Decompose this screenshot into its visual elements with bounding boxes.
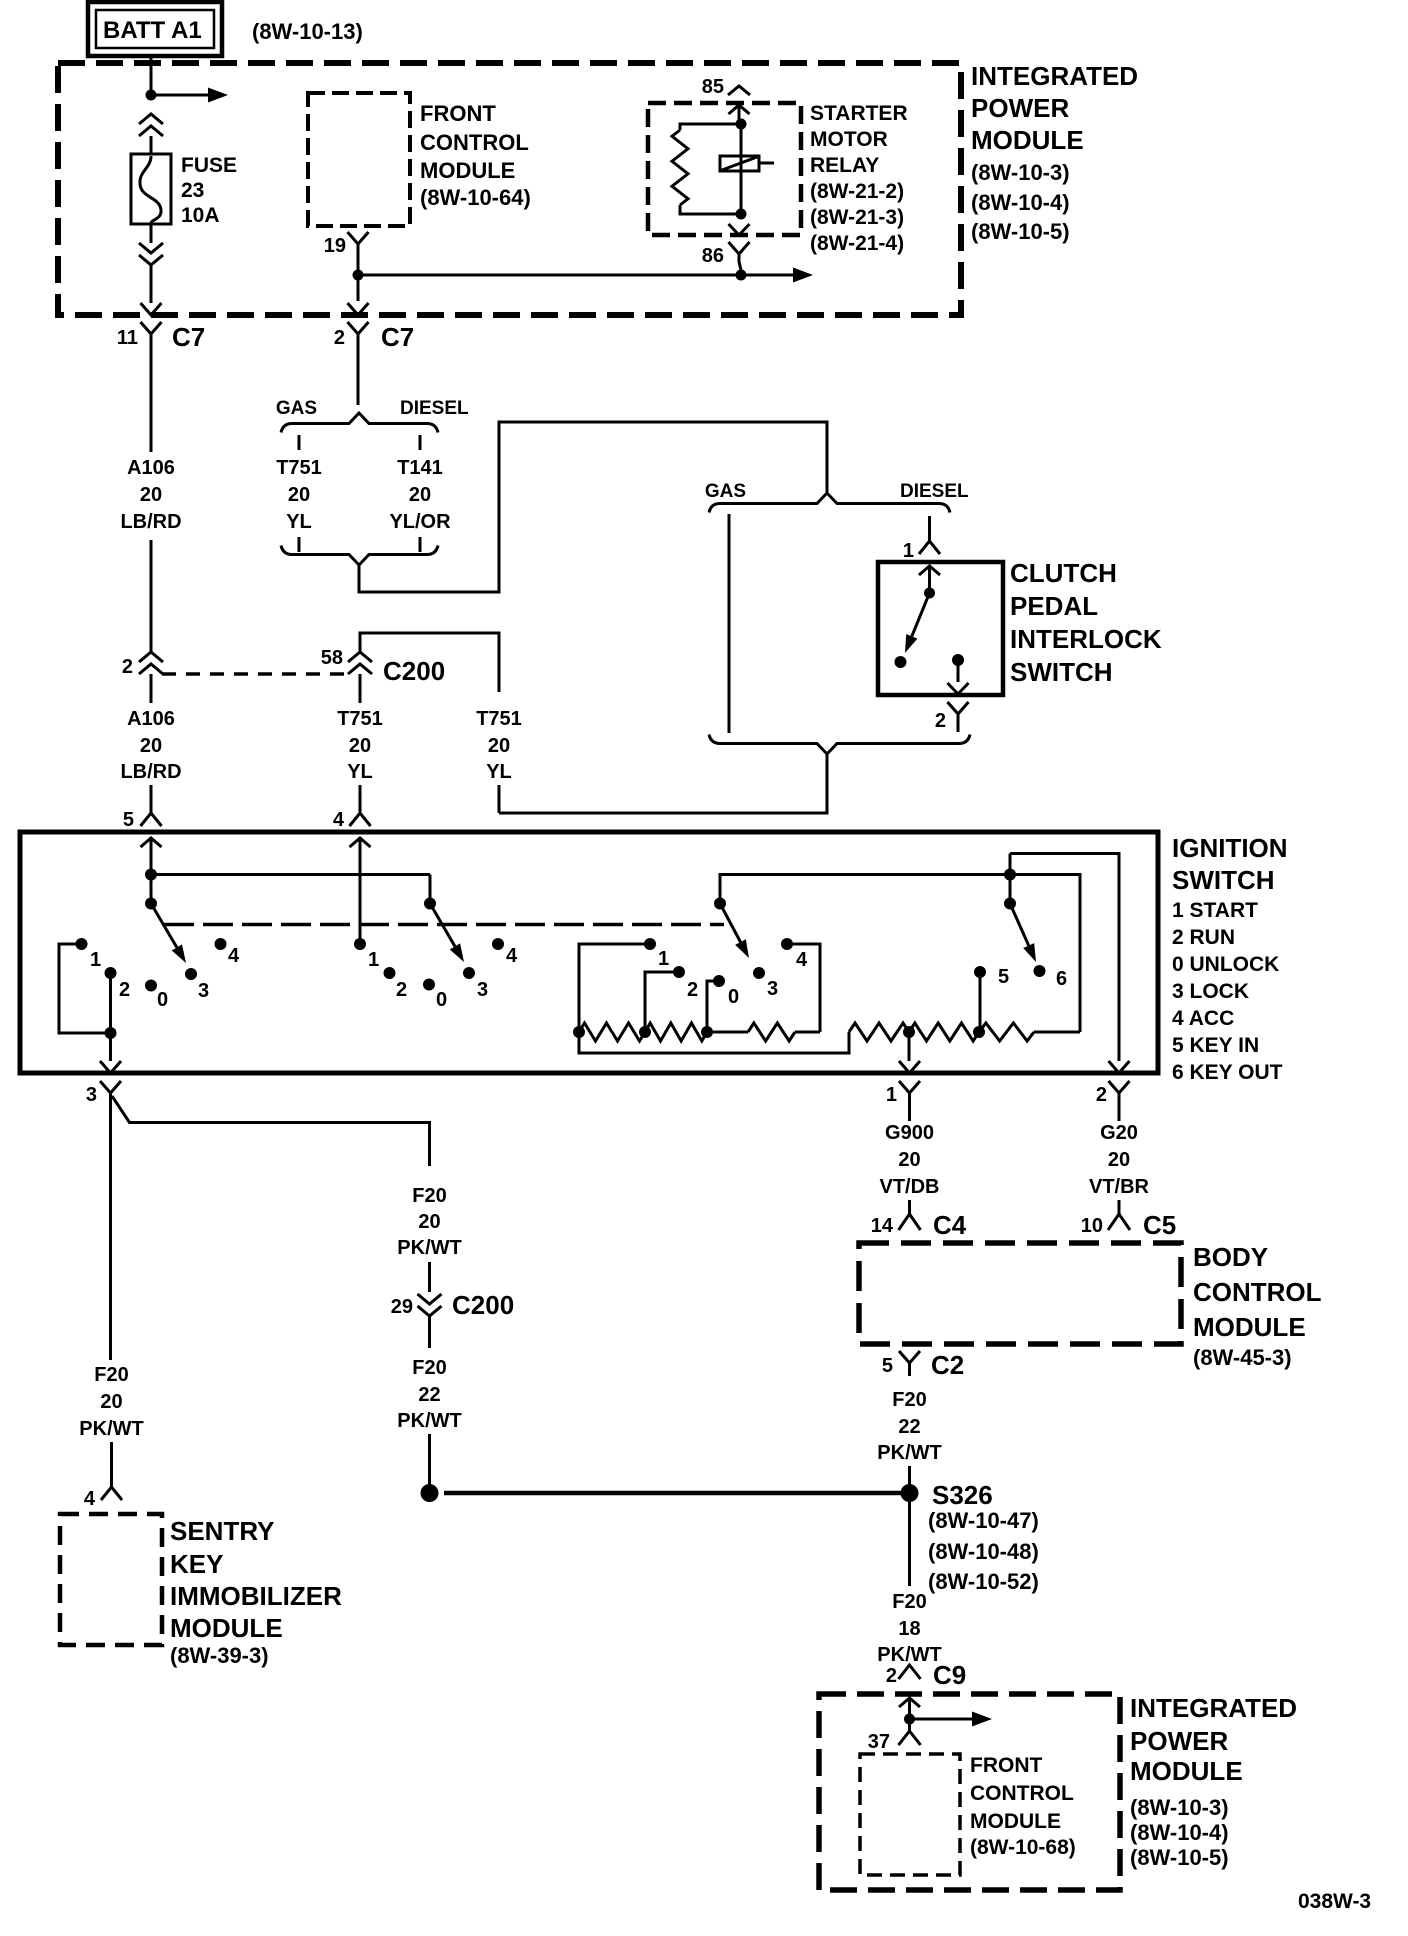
contact B1 [354,938,379,971]
svg-text:A106: A106 [127,457,175,479]
svg-text:CONTROL: CONTROL [970,1782,1074,1805]
switch arm C [720,904,749,959]
svg-text:C7: C7 [172,322,205,352]
node relay coil bottom [736,209,747,220]
svg-text:C9: C9 [933,1660,966,1690]
svg-text:10: 10 [1081,1215,1103,1237]
svg-text:MODULE: MODULE [170,1613,283,1643]
svg-text:YL: YL [347,761,373,783]
svg-text:INTEGRATED: INTEGRATED [971,61,1138,91]
label A106 wire (upper) [120,457,181,533]
clutch contact left [895,656,907,668]
contact A4 [215,938,241,967]
FCM title text [420,101,531,210]
contact D6 [1034,965,1068,990]
svg-text:20: 20 [288,484,310,506]
svg-text:RELAY: RELAY [810,154,879,177]
dashed stub T751 lower [298,537,301,552]
node relay output junction [736,270,747,281]
connector C4 label [933,1210,967,1240]
svg-text:DIESEL: DIESEL [900,481,969,502]
wire G20 upper [1118,1111,1121,1121]
svg-text:LB/RD: LB/RD [120,511,181,533]
svg-text:IGNITION: IGNITION [1172,833,1288,863]
svg-text:1: 1 [658,948,669,970]
connector C7 pin 2 exit [348,303,369,348]
node pivot D [1004,854,1016,910]
label T751 x499 (return) [476,708,522,783]
svg-text:T141: T141 [397,457,443,479]
svg-text:MODULE: MODULE [1130,1756,1243,1786]
switch arm A [151,904,186,964]
svg-text:PK/WT: PK/WT [397,1410,461,1432]
pin 2 label ignition [1096,1084,1107,1106]
svg-text:20: 20 [409,484,431,506]
clutch switch title [1010,558,1162,687]
reference label (8W-10-13) [252,19,363,44]
clutch pin 2 exit [948,683,969,694]
node ladder out1 [903,1026,915,1038]
svg-text:MODULE: MODULE [1193,1312,1306,1342]
svg-text:22: 22 [418,1384,440,1406]
svg-text:5 KEY IN: 5 KEY IN [1172,1034,1259,1057]
svg-text:6 KEY OUT: 6 KEY OUT [1172,1061,1283,1084]
svg-text:INTEGRATED: INTEGRATED [1130,1693,1297,1723]
svg-text:(8W-21-3): (8W-21-3) [810,206,904,229]
figure number 038W-3 [1298,1890,1371,1913]
svg-text:20: 20 [140,484,162,506]
svg-text:PK/WT: PK/WT [397,1237,461,1259]
node ladder mid1 [639,1026,651,1038]
wire branch pin3 to C200-29 [112,1096,430,1166]
switch arm D [1010,904,1036,963]
svg-text:0: 0 [157,989,168,1011]
svg-text:PK/WT: PK/WT [877,1442,941,1464]
dashed stub T751 [298,435,301,450]
svg-text:F20: F20 [412,1357,446,1379]
starter motor relay box (dashed) [648,103,801,235]
wire T751 return lower [498,785,501,813]
connector C200 pin 58 chevrons [348,652,372,703]
svg-text:5: 5 [998,966,1009,988]
BCM pin 14 fork [899,1214,921,1230]
svg-text:DIESEL: DIESEL [400,398,469,419]
splice S326 label [932,1480,993,1510]
svg-text:(8W-10-5): (8W-10-5) [971,219,1070,244]
dashed stub T141 lower [419,537,422,552]
svg-text:2: 2 [334,327,345,349]
svg-text:KEY: KEY [170,1549,223,1579]
contact B0 [423,979,447,1012]
svg-text:GAS: GAS [705,481,746,502]
wire clutch loop return to C200 pin 58 [360,633,499,692]
svg-text:2: 2 [1096,1084,1107,1106]
pin 1 label [886,1084,897,1106]
pin 37 label [868,1731,890,1753]
connector C9 pin 2 fork [899,1665,921,1679]
svg-text:F20: F20 [94,1364,128,1386]
node FCM output junction [353,270,364,281]
wire gas bypass [728,514,731,733]
wire contact C1 left [579,944,650,1032]
resistor ladder R3 [748,1023,820,1041]
label DIESEL (split 1) [400,398,469,419]
contact D5 [974,966,1009,1032]
svg-text:C7: C7 [381,322,414,352]
svg-text:C5: C5 [1143,1210,1176,1240]
wire A106 upper [150,348,153,452]
node IPM2 junction [904,1714,915,1725]
svg-text:1: 1 [886,1084,897,1106]
svg-text:MODULE: MODULE [420,158,515,183]
label F20 22 PK/WT (branch) [397,1357,461,1432]
wire A106 middle [150,540,153,654]
pin 5 label C2 [882,1355,893,1377]
wire G20 lower [1118,1200,1121,1214]
svg-text:11: 11 [117,327,138,349]
contact C1 [644,938,669,970]
label GAS (split 2) [705,481,746,502]
svg-text:T751: T751 [476,708,522,730]
wire S326 down [908,1502,911,1586]
node rail D junction [1004,869,1016,881]
wire branch middle [428,1262,431,1292]
FCM2 pin 37 fork [899,1719,921,1745]
svg-text:(8W-10-4): (8W-10-4) [1130,1820,1229,1845]
mechanical link dashed line [164,923,724,927]
BCM pin 10 fork [1108,1214,1130,1230]
svg-text:PK/WT: PK/WT [79,1418,143,1440]
wire C7 pin 2 down [357,348,360,405]
svg-text:CONTROL: CONTROL [420,130,529,155]
relay title text [810,102,908,255]
svg-text:(8W-10-68): (8W-10-68) [970,1836,1076,1859]
pin 11 label [117,327,138,349]
arrow IPM2 feed right [910,1712,993,1727]
ignition pin 1 exit [899,1061,920,1111]
connector C9 label [933,1660,966,1690]
svg-text:BODY: BODY [1193,1242,1268,1272]
svg-text:SENTRY: SENTRY [170,1516,275,1546]
label T141 20 YL/OR (split) [389,457,451,533]
svg-text:2: 2 [119,979,130,1001]
pin 4 label SKIM [84,1488,96,1510]
body control module box (dashed) [859,1243,1181,1344]
brace split gas/diesel [281,413,438,433]
svg-text:(8W-45-3): (8W-45-3) [1193,1345,1292,1370]
pin 19 label [324,235,346,257]
svg-text:FUSE: FUSE [181,154,237,177]
IPM2 title text [1130,1693,1297,1870]
resistor ladder R1 [579,1023,645,1041]
wire junction to starter relay arrow [358,268,813,283]
svg-text:3 LOCK: 3 LOCK [1172,980,1249,1003]
svg-text:MODULE: MODULE [970,1810,1061,1833]
label GAS (split 1) [276,398,317,419]
svg-text:T751: T751 [337,708,383,730]
svg-text:VT/BR: VT/BR [1089,1176,1150,1198]
svg-text:FRONT: FRONT [970,1754,1042,1777]
svg-text:(8W-10-52): (8W-10-52) [928,1569,1039,1594]
svg-text:S326: S326 [932,1480,993,1510]
wire FCM pin 19 to junction [357,252,360,301]
svg-text:CONTROL: CONTROL [1193,1277,1322,1307]
svg-text:YL: YL [486,761,512,783]
pin 86 label [702,245,724,267]
svg-text:C2: C2 [931,1350,964,1380]
wire battery feed [150,56,153,95]
relay pin 85 connector [728,86,750,124]
wire contact A2 to output [109,973,112,1033]
svg-text:0: 0 [436,989,447,1011]
dashed stub T141 [419,435,422,450]
wire branch to splice [428,1434,431,1484]
pin 85 label [702,76,724,98]
svg-text:4: 4 [506,945,518,967]
svg-text:BATT A1: BATT A1 [103,17,202,44]
svg-text:SWITCH: SWITCH [1010,657,1113,687]
svg-text:G900: G900 [885,1122,934,1144]
svg-text:1: 1 [90,949,101,971]
svg-text:POWER: POWER [971,93,1069,123]
svg-text:1 START: 1 START [1172,899,1258,922]
svg-text:(8W-10-47): (8W-10-47) [928,1508,1039,1533]
svg-text:3: 3 [477,979,488,1001]
connector C7 label (left) [172,322,205,352]
svg-text:19: 19 [324,235,346,257]
contact A0 [145,980,168,1012]
svg-text:(8W-10-3): (8W-10-3) [1130,1795,1229,1820]
svg-text:10A: 10A [181,204,220,227]
wire clutch merge return [499,754,827,813]
svg-text:37: 37 [868,1731,890,1753]
contact B3 [463,967,488,1001]
connector C200 label (lower) [452,1290,514,1320]
pin 2 label C9 [886,1665,897,1687]
wire A106 lower [150,785,153,813]
svg-text:4: 4 [333,809,345,831]
svg-text:038W-3: 038W-3 [1298,1890,1371,1913]
svg-text:20: 20 [418,1211,440,1233]
svg-text:18: 18 [898,1618,920,1640]
svg-text:SWITCH: SWITCH [1172,865,1275,895]
node ladder mid2 [701,1026,713,1038]
connector C7 pin 11 exit [141,303,162,348]
label G20 20 VT/BR [1089,1122,1150,1198]
label T751 x360 (below C200) [337,708,383,783]
ignition switch title [1172,833,1288,895]
ignition switch pin 5 entry [141,813,162,874]
label G900 20 VT/DB [880,1122,940,1198]
contact C4 [781,938,808,971]
svg-text:22: 22 [898,1416,920,1438]
wire splice to S326 [444,1491,901,1496]
relay contact [720,124,774,214]
wire BCM to splice [908,1466,911,1484]
SKIM title text [170,1516,342,1668]
wire ladder to pin 1 [908,1032,911,1061]
label F20 18 PK/WT [877,1591,941,1666]
wire contact C2 left [645,972,679,1032]
IPM title text [971,61,1138,244]
svg-text:14: 14 [871,1215,894,1237]
svg-text:4 ACC: 4 ACC [1172,1007,1234,1030]
ignition pin 3 exit [100,1061,121,1111]
svg-text:F20: F20 [892,1591,926,1613]
resistor ladder R6 [979,1023,1080,1041]
front control module box 2 (dashed) [860,1754,960,1875]
wire pin4 to contact B1 [359,848,362,944]
rail pivot D to pin 2 [1010,854,1119,1062]
node rail A [145,869,157,904]
svg-text:23: 23 [181,179,204,202]
contact A1 [76,938,102,971]
clutch switch entry chevron [919,566,940,593]
label T751 20 YL (split) [276,457,322,533]
pin 3 label [86,1084,97,1106]
connector chevrons above fuse [139,114,163,154]
node pivot C [714,898,726,910]
clutch pin 1 fork [919,541,940,554]
resistor ladder R5 [909,1023,979,1041]
svg-text:20: 20 [100,1391,122,1413]
contact B4 [492,938,518,967]
svg-text:3: 3 [767,978,778,1000]
pin 2 label C200 [122,656,133,678]
clutch pin 2 fork [948,702,969,732]
wire SKIM lower [110,1442,113,1487]
svg-text:T751: T751 [276,457,322,479]
contact C3 [753,967,778,1000]
svg-text:1: 1 [368,949,379,971]
brace split clutch [709,493,950,513]
splice S326 [901,1484,919,1502]
svg-text:5: 5 [882,1355,893,1377]
relay coil resistor [672,124,741,214]
svg-text:A106: A106 [127,708,175,730]
rail pin5 to section B [151,873,430,876]
connector C7 label (middle) [381,322,414,352]
svg-text:C200: C200 [383,656,445,686]
svg-text:(8W-21-2): (8W-21-2) [810,180,904,203]
pin 14 label [871,1215,894,1237]
svg-text:(8W-10-5): (8W-10-5) [1130,1845,1229,1870]
wire output A to pin 3 [109,1033,112,1061]
svg-text:1: 1 [903,540,914,562]
svg-text:(8W-10-3): (8W-10-3) [971,160,1070,185]
svg-text:2: 2 [122,656,133,678]
svg-text:(8W-10-48): (8W-10-48) [928,1539,1039,1564]
svg-text:4: 4 [228,945,240,967]
svg-text:POWER: POWER [1130,1726,1228,1756]
sentry key immobilizer module box (dashed) [60,1514,162,1645]
connector C200 pin 2 chevrons [139,652,163,703]
brace merge clutch [709,735,970,755]
label A106 wire (lower) [120,708,181,783]
svg-text:2: 2 [935,710,946,732]
resistor ladder R2 [645,1023,707,1041]
wire contact C4 right [787,944,820,1032]
node pivot A [145,898,157,910]
ignition switch position list [1172,899,1283,1084]
svg-text:C4: C4 [933,1210,967,1240]
node ladder left [573,1026,585,1038]
fuse 23 10A [131,154,171,224]
splice junction left [421,1484,439,1502]
svg-text:4: 4 [84,1488,96,1510]
svg-text:GAS: GAS [276,398,317,419]
svg-text:PEDAL: PEDAL [1010,591,1098,621]
svg-text:0 UNLOCK: 0 UNLOCK [1172,953,1279,976]
svg-text:20: 20 [349,735,371,757]
svg-text:YL/OR: YL/OR [389,511,451,533]
wire G900 upper [908,1111,911,1121]
svg-text:(8W-10-13): (8W-10-13) [252,19,363,44]
contact A2 [105,967,131,1001]
svg-text:2 RUN: 2 RUN [1172,926,1235,949]
IPM2 entry chevron [899,1698,920,1719]
wire pin3 down [109,1111,112,1360]
FCM pin 19 connector [348,232,369,252]
clutch contact right [952,654,964,682]
resistor ladder R4 [849,1023,909,1041]
node clutch arm pivot [924,588,935,599]
integrated power module box 2 (dashed) [819,1694,1120,1890]
svg-text:G20: G20 [1100,1122,1138,1144]
node relay coil top [736,119,747,130]
svg-text:6: 6 [1056,968,1067,990]
svg-text:(8W-10-4): (8W-10-4) [971,190,1070,215]
arrow feed continues right [151,88,228,103]
svg-text:MOTOR: MOTOR [810,128,888,151]
FCM2 title text [970,1754,1076,1859]
connector C5 label [1143,1210,1176,1240]
pin 2 label clutch [935,710,946,732]
svg-text:F20: F20 [892,1389,926,1411]
connector C2 label [931,1350,964,1380]
battery feed box BATT A1 [88,2,222,56]
svg-text:86: 86 [702,245,724,267]
SKIM pin 4 fork [101,1487,122,1500]
svg-text:2: 2 [396,979,407,1001]
ignition switch pin 4 entry [350,813,371,874]
wire diesel to clutch pin 1 [928,516,931,541]
relay pin 86 exit [729,224,750,235]
C200 boundary dashed line [162,672,345,676]
svg-text:(8W-21-4): (8W-21-4) [810,232,904,255]
svg-text:LB/RD: LB/RD [120,761,181,783]
pin 58 label [321,647,343,669]
svg-text:4: 4 [796,949,808,971]
svg-text:STARTER: STARTER [810,102,908,125]
svg-text:5: 5 [123,809,134,831]
ignition switch box [20,832,1158,1073]
svg-text:20: 20 [140,735,162,757]
svg-text:2: 2 [687,979,698,1001]
wire contact A1 to output [59,944,105,1033]
BCM pin 5 fork exit [899,1351,920,1376]
wire contact C0 left [707,981,719,1032]
svg-text:0: 0 [728,986,739,1008]
pin 1 label clutch [903,540,914,562]
contact C2 [673,966,698,1001]
label F20 22 PK/WT (BCM) [877,1389,941,1464]
pin 10 label [1081,1215,1103,1237]
svg-text:3: 3 [86,1084,97,1106]
wire G900 lower [908,1200,911,1214]
svg-text:3: 3 [198,980,209,1002]
pin 2 label [334,327,345,349]
